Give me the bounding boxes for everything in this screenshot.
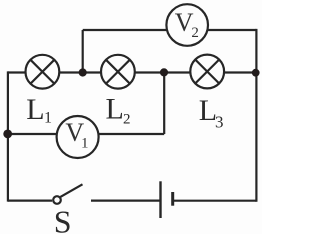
wire from battery to right rail bbox=[173, 200, 257, 202]
label L2 bbox=[106, 93, 131, 128]
svg-text:2: 2 bbox=[191, 25, 199, 41]
wire from V1 right toward node between L2 and L3 bbox=[99, 133, 165, 135]
label L1 bbox=[26, 93, 52, 127]
node junction right rail bbox=[252, 69, 260, 77]
node junction between L2 and L3 bbox=[160, 68, 168, 76]
wire between L2 and L3 bbox=[135, 71, 191, 73]
switch S bbox=[53, 184, 82, 204]
wire from L3 to right rail bbox=[224, 71, 256, 73]
svg-text:S: S bbox=[54, 203, 72, 234]
wire vertical up to node between L2 and L3 bbox=[163, 73, 165, 135]
wire top horizontal to V2 left bbox=[83, 29, 167, 31]
wire left rail vertical bbox=[7, 71, 9, 201]
lamp L2 bbox=[101, 55, 135, 89]
svg-text:3: 3 bbox=[215, 113, 224, 132]
wire between L1 and L2 bbox=[59, 71, 101, 73]
node junction between L1 and L2 bbox=[79, 68, 87, 76]
wire right rail vertical bbox=[255, 29, 257, 202]
voltmeter U V2 bbox=[166, 4, 208, 46]
svg-text:1: 1 bbox=[81, 136, 89, 152]
wire from left rail node to V1 left bbox=[8, 133, 57, 135]
label L3 bbox=[199, 94, 224, 131]
battery cell long plate bbox=[159, 181, 161, 218]
svg-text:L: L bbox=[106, 93, 124, 126]
svg-text:L: L bbox=[26, 93, 44, 126]
lamp L1 bbox=[26, 55, 60, 89]
wire from switch fixed contact to battery bbox=[91, 200, 161, 202]
svg-text:1: 1 bbox=[44, 110, 52, 127]
voltmeter U V1 bbox=[57, 116, 99, 158]
battery cell short plate bbox=[171, 192, 174, 206]
wire main top-left segment to left rail bbox=[8, 71, 26, 73]
wire top horizontal from V2 right to right rail bbox=[208, 29, 257, 31]
wire bottom-left to switch bbox=[8, 200, 52, 202]
wire vertical from node between L1 and L2 up to top loop bbox=[82, 30, 84, 73]
node junction left rail bbox=[3, 130, 12, 139]
lamp L3 bbox=[190, 55, 224, 89]
svg-text:2: 2 bbox=[123, 111, 131, 127]
